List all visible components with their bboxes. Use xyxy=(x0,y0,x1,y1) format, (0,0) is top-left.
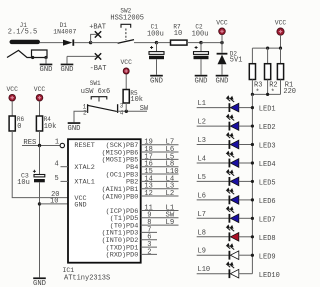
svg-text:VCC: VCC xyxy=(216,19,228,26)
svg-text:GND: GND xyxy=(195,77,208,85)
open end marker -BAT xyxy=(95,53,101,59)
svg-text:L4: L4 xyxy=(198,155,206,163)
junction merge R2 xyxy=(266,93,269,96)
svg-text:L1: L1 xyxy=(198,100,206,108)
svg-text:GND: GND xyxy=(68,125,81,133)
svg-text:(RXD)PD0: (RXD)PD0 xyxy=(106,252,139,260)
open end marker +BAT xyxy=(95,31,101,37)
LED6 xyxy=(197,189,253,205)
svg-text:*: * xyxy=(255,89,259,97)
svg-text:5V1: 5V1 xyxy=(230,57,243,65)
svg-text:L8: L8 xyxy=(198,229,206,237)
svg-text:GND: GND xyxy=(40,66,53,74)
wire pin 13 stub xyxy=(141,188,179,190)
zener diode D2 5V1 xyxy=(217,43,243,75)
svg-text:L7: L7 xyxy=(198,211,206,219)
diode D1 1N4007 xyxy=(53,22,76,46)
junction jack sleeve xyxy=(44,56,47,59)
LED4 xyxy=(197,152,253,168)
LED8 xyxy=(197,225,253,241)
svg-text:L9: L9 xyxy=(198,248,206,256)
wire pin 12 stub xyxy=(141,195,179,197)
wire SW1 to SW net xyxy=(118,110,147,112)
svg-text:HSS12005: HSS12005 xyxy=(110,14,144,22)
svg-text:220: 220 xyxy=(283,88,296,96)
resistor R7 10 xyxy=(171,23,188,45)
IC pin names left column xyxy=(74,142,94,210)
svg-text:10: 10 xyxy=(50,198,58,206)
svg-text:GND: GND xyxy=(61,66,74,74)
svg-text:0: 0 xyxy=(17,123,21,131)
wire VCC to R5 xyxy=(125,74,127,89)
wire to IC GND pin 10 xyxy=(40,203,69,205)
wire C3 to ground rail xyxy=(39,182,41,277)
junction rail R2 xyxy=(266,47,269,50)
svg-text:GND: GND xyxy=(216,77,229,85)
svg-text:LED3: LED3 xyxy=(259,143,276,151)
junction VCC rail node xyxy=(220,41,223,44)
svg-text:VCC: VCC xyxy=(275,19,287,26)
wire pin 16 stub xyxy=(141,166,179,168)
wire J1 to D1 xyxy=(40,42,63,44)
wire C2 to VCC node xyxy=(201,42,222,44)
junction bus LED2 xyxy=(251,124,254,127)
junction rail R1 xyxy=(279,47,282,50)
wire VCC to R6 xyxy=(11,101,13,116)
junction bus LED7 xyxy=(251,217,254,220)
wire LED anode bus xyxy=(251,94,253,273)
capacitor C2 100u xyxy=(192,24,209,75)
svg-text:10k: 10k xyxy=(130,96,143,104)
wire resistor top rail xyxy=(252,47,280,49)
wire pin 18 stub xyxy=(141,151,179,153)
svg-text:LED5: LED5 xyxy=(259,180,276,188)
ground GND under SW1 xyxy=(68,122,81,124)
wire rail to R1 xyxy=(280,48,282,64)
svg-text:L9: L9 xyxy=(166,219,175,227)
wire R3 to merge xyxy=(251,80,253,95)
ground GND under J1 xyxy=(40,64,53,66)
wire pin 8 stub xyxy=(141,224,179,226)
wire pin 19 stub xyxy=(141,144,179,146)
svg-text:2.1/5.5: 2.1/5.5 xyxy=(8,29,37,37)
svg-text:LED1: LED1 xyxy=(259,106,276,114)
switch SW2 HSS12005 xyxy=(110,8,144,44)
svg-text:LED8: LED8 xyxy=(259,235,276,243)
svg-text:10k: 10k xyxy=(44,123,57,131)
svg-text:XTAL1: XTAL1 xyxy=(74,179,94,187)
wire D1 to node xyxy=(74,42,90,44)
svg-text:1: 1 xyxy=(55,139,59,147)
svg-text:100u: 100u xyxy=(192,30,209,38)
LED7 xyxy=(197,207,253,223)
power VCC supply node xyxy=(216,19,228,34)
wire pin 17 stub xyxy=(141,158,179,160)
wire pin 3 stub xyxy=(141,246,157,248)
power VCC pullup R5 xyxy=(120,59,132,74)
junction C2 top xyxy=(199,41,202,44)
svg-text:GND: GND xyxy=(74,202,86,210)
LED3 xyxy=(197,133,253,149)
svg-text:L3: L3 xyxy=(198,137,206,145)
wire pin 15 stub xyxy=(141,173,179,175)
wire C1 to R7 xyxy=(157,42,171,44)
wire R2 to merge xyxy=(267,80,269,95)
wire R7 to C2 xyxy=(187,42,201,44)
svg-text:L6: L6 xyxy=(198,192,206,200)
svg-text:SW: SW xyxy=(140,105,149,113)
svg-text:VCC: VCC xyxy=(6,86,18,93)
ground GND under D2 xyxy=(216,75,229,77)
junction SW node xyxy=(125,110,128,113)
svg-text:+BAT: +BAT xyxy=(89,24,106,32)
connector J1 power jack xyxy=(7,22,47,58)
svg-text:LED10: LED10 xyxy=(259,272,280,280)
svg-text:LED7: LED7 xyxy=(259,216,276,224)
pin 1 inversion bubble xyxy=(60,143,64,147)
svg-text:1N4007: 1N4007 xyxy=(53,29,76,36)
wire -BAT to ground xyxy=(67,55,98,57)
svg-text:XTAL2: XTAL2 xyxy=(74,164,94,172)
wire node to SW2 xyxy=(91,42,118,44)
junction merge R3 xyxy=(251,93,254,96)
wire pin 11 stub xyxy=(141,210,179,212)
junction bus LED3 xyxy=(251,143,254,146)
wire RES net xyxy=(22,145,60,147)
resistor R3 xyxy=(249,64,255,80)
svg-text:2: 2 xyxy=(83,110,87,117)
junction +BAT node xyxy=(89,41,92,44)
ground GND under D1 xyxy=(61,64,74,66)
LED5 xyxy=(197,170,253,186)
svg-text:LED9: LED9 xyxy=(259,253,276,261)
wire rail to R2 xyxy=(267,48,269,64)
svg-text:SW1: SW1 xyxy=(90,80,101,87)
junction GND pin node xyxy=(38,202,41,205)
wire pin 9 stub xyxy=(141,217,179,219)
svg-text:10: 10 xyxy=(174,30,182,38)
net +BAT stub xyxy=(91,34,98,42)
junction jack switch contact xyxy=(31,56,34,59)
capacitor C3 10u xyxy=(17,146,45,188)
wire stub -BAT ground xyxy=(66,56,68,63)
capacitor C1 100u xyxy=(147,24,164,75)
wire SW1 to ground xyxy=(74,111,88,122)
LED2 xyxy=(197,115,253,131)
wire pin 2 stub xyxy=(141,253,157,255)
svg-text:5: 5 xyxy=(54,175,58,183)
wire pin 5 stub xyxy=(61,180,69,182)
wire rail to R3 xyxy=(251,48,253,64)
svg-text:L10: L10 xyxy=(198,266,211,274)
svg-text:10u: 10u xyxy=(17,179,30,187)
op IC1 ATtiny2313 microcontroller body xyxy=(68,139,141,263)
wire VCC to R4 xyxy=(39,101,41,116)
svg-text:GND: GND xyxy=(33,280,46,287)
svg-text:4: 4 xyxy=(120,110,124,117)
ground GND under C1 xyxy=(150,75,163,77)
wire jack to ground xyxy=(45,58,47,64)
LED1 xyxy=(197,96,253,112)
junction bus LED4 xyxy=(251,161,254,164)
svg-text:L2: L2 xyxy=(198,119,206,127)
power VCC LED supply xyxy=(275,19,287,35)
switch SW1 uSW 6x6 xyxy=(81,80,124,117)
svg-text:-BAT: -BAT xyxy=(90,65,107,73)
power VCC R6 xyxy=(6,86,18,101)
svg-text:RES: RES xyxy=(23,139,36,147)
ground GND bottom xyxy=(33,277,46,279)
svg-text:L2: L2 xyxy=(166,190,175,198)
svg-text:2: 2 xyxy=(147,248,151,256)
wire pin 7 stub xyxy=(141,231,157,233)
junction bus LED1 xyxy=(251,106,254,109)
resistor R4 10k xyxy=(36,116,42,131)
junction bus LED9 xyxy=(251,254,254,257)
wire R1 to merge xyxy=(280,80,282,95)
junction RES node xyxy=(38,144,41,147)
junction bus LED6 xyxy=(251,198,254,201)
svg-text:LED2: LED2 xyxy=(259,124,276,132)
wire R4 to RES node xyxy=(39,131,41,146)
svg-text:RESET: RESET xyxy=(74,142,94,150)
ground GND under C2 xyxy=(195,75,208,77)
wire pin 6 stub xyxy=(141,239,157,241)
wire R5 to SW node xyxy=(125,103,127,111)
resistor R6 0 xyxy=(9,116,15,131)
LED10 xyxy=(197,262,253,278)
junction bus LED5 xyxy=(251,180,254,183)
IC pin names right column xyxy=(102,142,139,260)
LED9 xyxy=(197,244,253,260)
svg-text:IC1: IC1 xyxy=(63,267,75,274)
svg-text:L5: L5 xyxy=(198,174,206,182)
junction C1 top xyxy=(155,41,158,44)
resistor R5 10k xyxy=(123,90,129,104)
wire R6 to IC VCC pin 20 xyxy=(12,131,68,198)
wire pin 14 stub xyxy=(141,180,179,182)
resistor R2 xyxy=(265,64,271,80)
wire resistor merge xyxy=(252,93,280,95)
svg-text:uSW 6x6: uSW 6x6 xyxy=(81,88,110,96)
svg-text:4: 4 xyxy=(54,161,58,169)
svg-text:100u: 100u xyxy=(147,30,164,38)
svg-text:GND: GND xyxy=(150,77,163,85)
wire SW2 to C1 xyxy=(134,42,157,44)
power VCC R4 xyxy=(34,86,46,101)
svg-text:VCC: VCC xyxy=(120,59,132,66)
svg-text:*: * xyxy=(271,89,275,97)
svg-text:LED6: LED6 xyxy=(259,198,276,206)
wire VCC to node xyxy=(221,35,223,43)
svg-text:ATtiny2313S: ATtiny2313S xyxy=(64,275,110,283)
wire pin 4 stub xyxy=(61,166,69,168)
svg-text:(AIN0)PB0: (AIN0)PB0 xyxy=(102,193,139,201)
resistor R1 xyxy=(277,64,283,80)
svg-text:LED4: LED4 xyxy=(259,161,276,169)
svg-text:12: 12 xyxy=(144,190,152,198)
junction bus LED8 xyxy=(251,235,254,238)
svg-text:VCC: VCC xyxy=(34,86,46,93)
wire VCC down to rail xyxy=(280,35,282,48)
